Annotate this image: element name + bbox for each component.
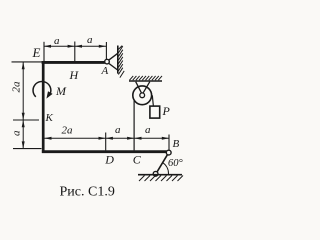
wall at A (vertical, hatched) — [117, 46, 119, 74]
tick K level — [13, 119, 39, 121]
hinge B — [166, 150, 171, 155]
dim arrow at D (left tip) — [106, 137, 113, 140]
svg-text:К: К — [45, 112, 54, 124]
dim arrow top-left — [44, 45, 51, 48]
dim arrow at B (right tip) — [162, 137, 169, 140]
dim arrow left-bottom (down) — [22, 141, 25, 148]
svg-text:D: D — [104, 153, 114, 167]
beam D-C-B (bottom horizontal member) — [42, 150, 167, 153]
dim arrow at C (left tip) — [134, 137, 141, 140]
pulley bracket left leg — [136, 82, 143, 95]
svg-text:a: a — [11, 130, 23, 136]
dimension line 2a,a,a (bottom) — [44, 137, 169, 139]
svg-text:E: E — [32, 45, 41, 60]
svg-text:a: a — [54, 35, 60, 47]
tick B (extension above node B) — [168, 135, 170, 151]
svg-text:a: a — [115, 124, 121, 136]
svg-text:60°: 60° — [168, 158, 184, 169]
svg-text:Рис. С1.9: Рис. С1.9 — [60, 185, 115, 200]
cable right (to weight P) — [152, 95, 153, 106]
dimension line a,a (top) — [44, 45, 106, 47]
extension tick left of node E — [12, 61, 43, 63]
left dimension line 2a,a — [22, 62, 24, 149]
pin A (hinge circle) — [105, 59, 110, 64]
svg-text:M: M — [55, 84, 67, 98]
angle arc 60deg — [163, 163, 169, 174]
ground hinge — [153, 171, 158, 176]
svg-text:2a: 2a — [11, 81, 23, 93]
svg-text:a: a — [145, 124, 151, 136]
dim arrow at C (right tip) — [127, 137, 134, 140]
moment M arc — [33, 81, 51, 96]
support link A lower — [108, 63, 117, 70]
tick H (top dimension middle) — [74, 42, 76, 62]
svg-text:A: A — [101, 65, 109, 77]
dim arrow left at K (up) — [22, 120, 25, 127]
ceiling hatching — [130, 76, 163, 80]
ceiling line above pulley — [129, 80, 162, 82]
beam EA (top horizontal member) — [42, 61, 105, 64]
tick D — [105, 133, 107, 151]
pulley bracket right leg — [142, 82, 150, 95]
dim arrow bottom-left at member — [44, 137, 51, 140]
dim arrow top mid-right — [68, 45, 75, 48]
extension line above node A — [105, 42, 107, 59]
svg-text:2a: 2a — [62, 125, 74, 137]
svg-text:P: P — [162, 104, 171, 118]
svg-text:B: B — [173, 138, 180, 150]
member E-K-corner (left vertical member) — [42, 61, 45, 153]
dim arrow left-top (up) — [22, 62, 25, 69]
svg-text:H: H — [69, 68, 80, 82]
ground hatching — [139, 176, 183, 182]
svg-text:C: C — [133, 153, 142, 167]
extension line above node E — [43, 42, 45, 61]
ground line — [138, 174, 182, 176]
svg-text:a: a — [87, 34, 93, 46]
tick bottom-left (a lower end) — [13, 148, 42, 150]
dim arrow top-right — [99, 45, 106, 48]
dim arrow at D (right tip) — [99, 137, 106, 140]
support link A upper — [108, 53, 117, 60]
wall hatching — [118, 46, 124, 78]
weight P box — [150, 106, 160, 118]
dim arrow top mid-left — [75, 45, 82, 48]
pulley wheel — [133, 86, 152, 105]
rod support at B (60 deg) — [156, 155, 168, 174]
moment M arrowhead — [46, 91, 52, 98]
pulley hub — [140, 93, 145, 98]
dim arrow left at K (down) — [22, 113, 25, 120]
cable left (to C) — [133, 95, 135, 150]
